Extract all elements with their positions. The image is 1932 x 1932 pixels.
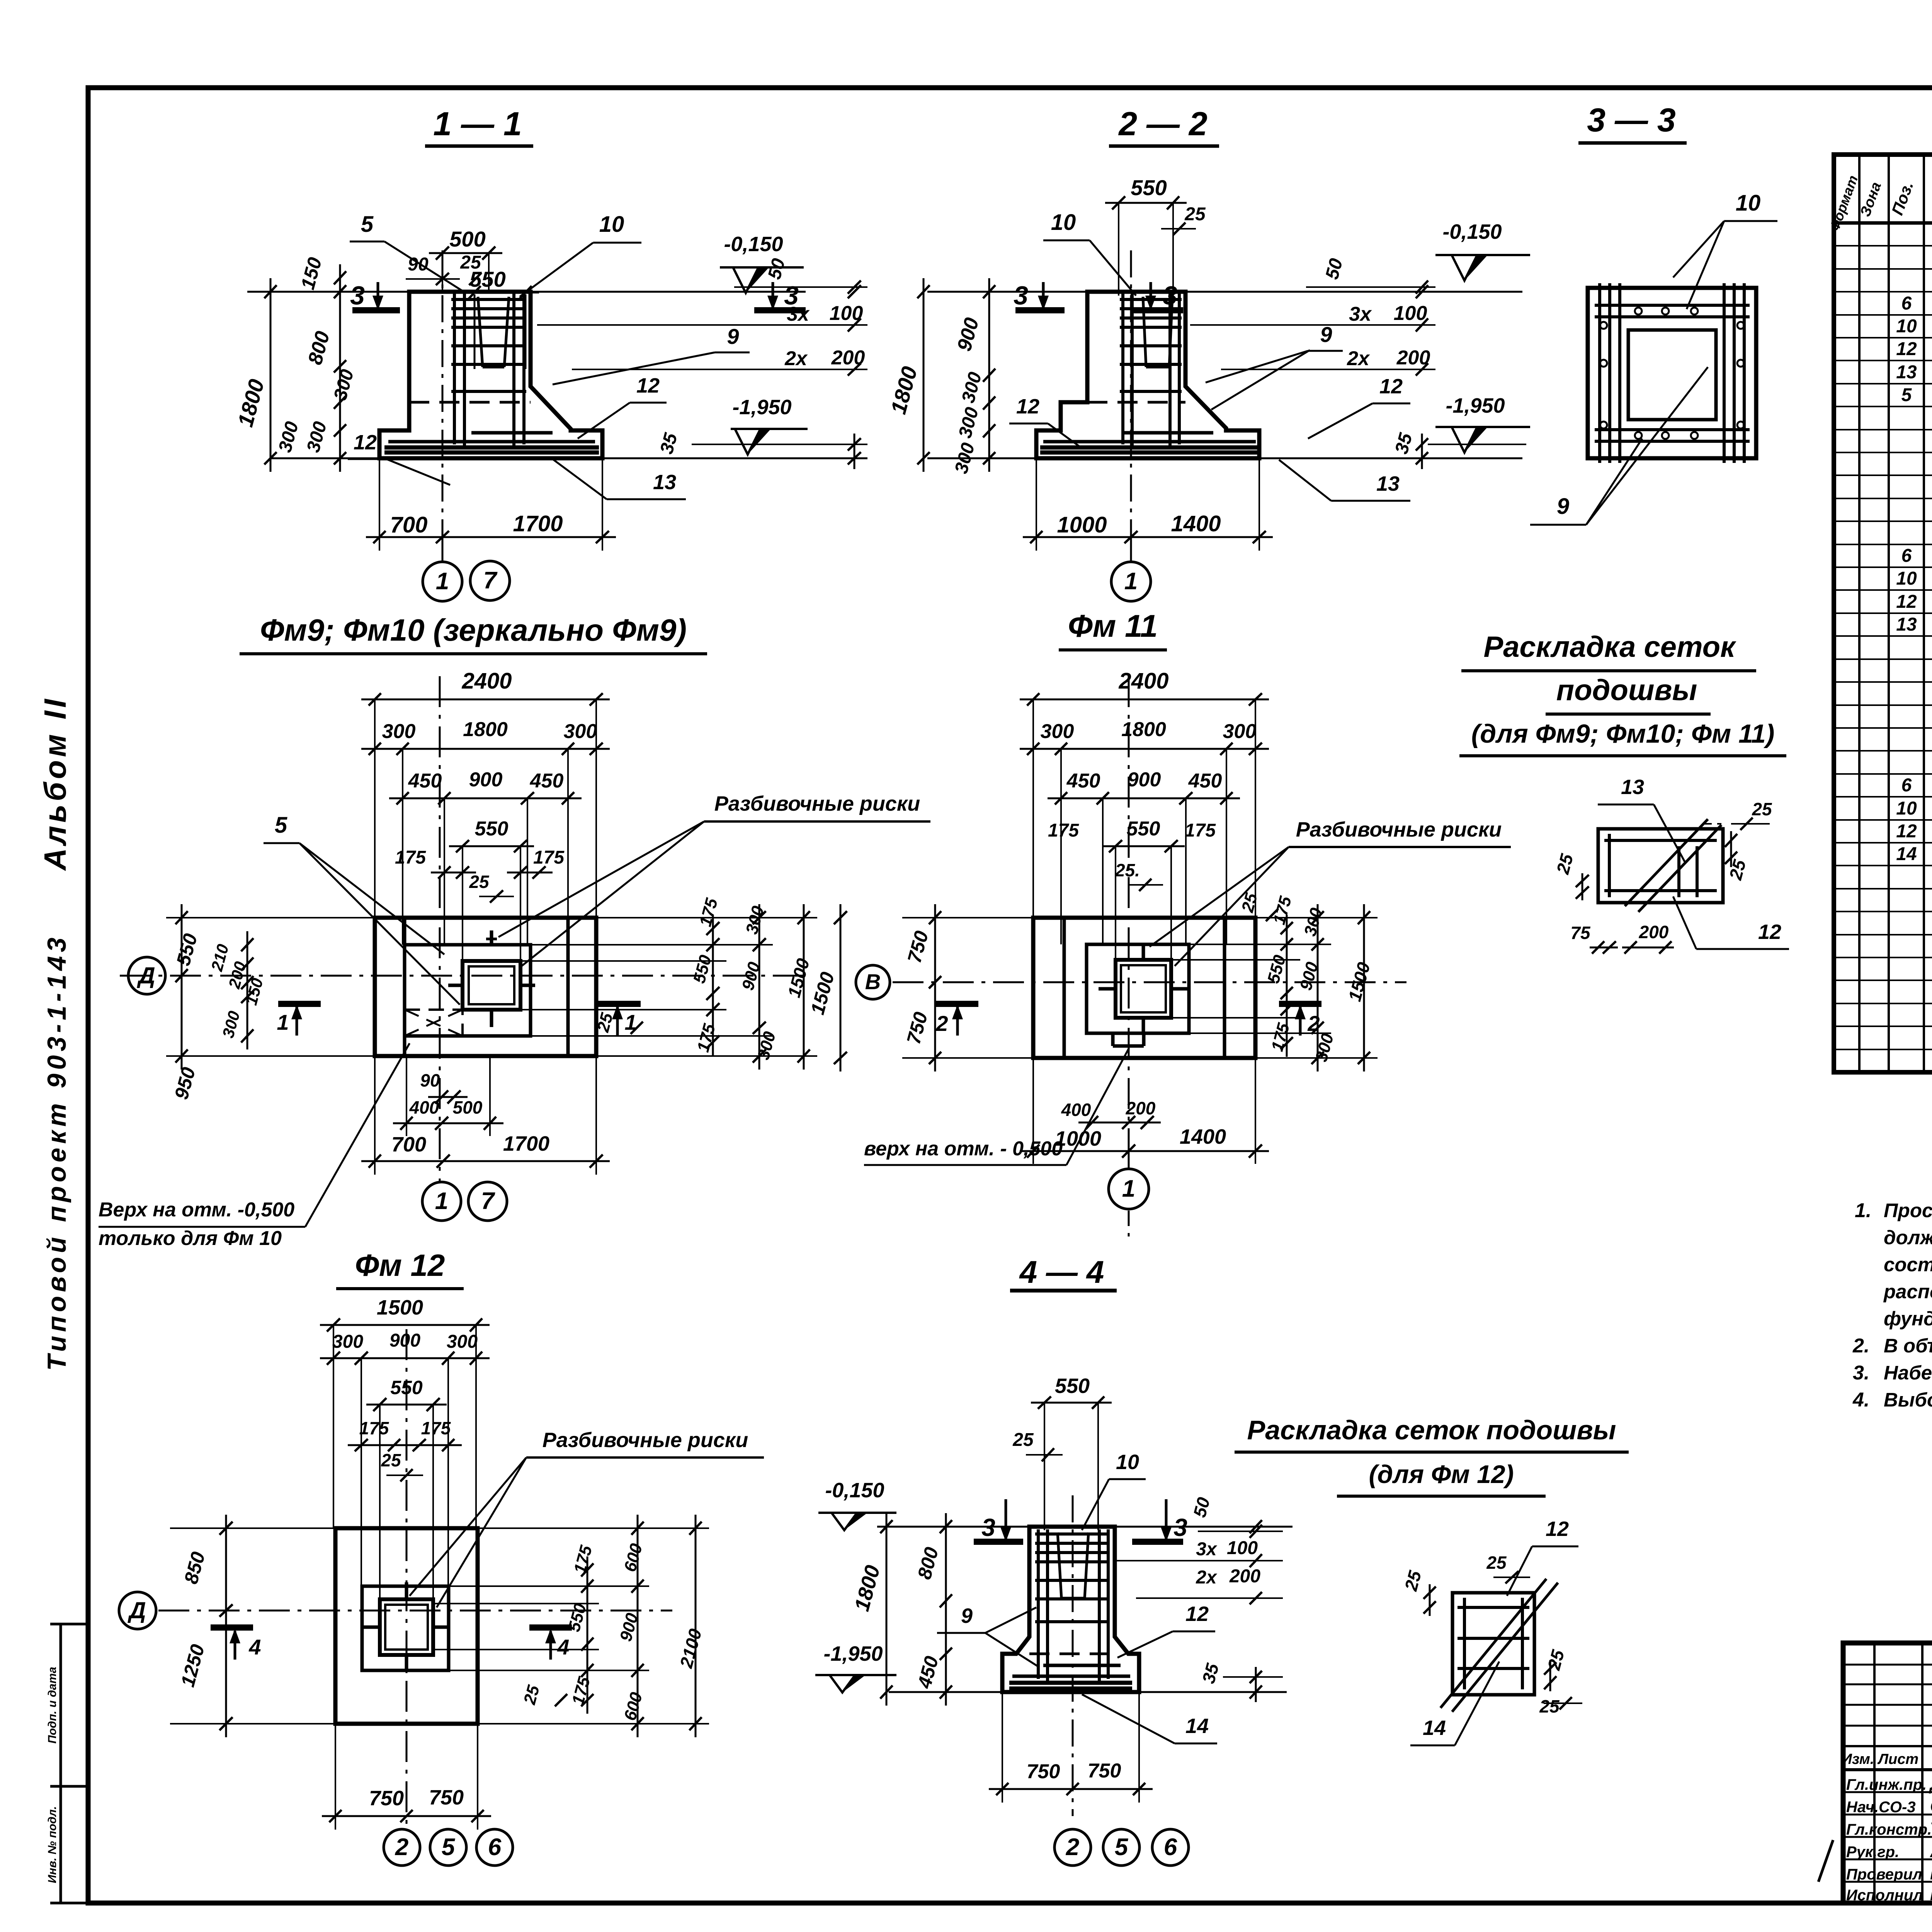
plan FM12 axis circles [384,1829,420,1866]
2-2 dim 550 [1105,202,1187,204]
svg-text:300: 300 [447,1332,478,1352]
section 2-2 centerline [1130,250,1132,537]
svg-text:4 — 4: 4 — 4 [1019,1255,1104,1290]
svg-text:12: 12 [1896,592,1917,612]
svg-text:550: 550 [1055,1374,1090,1398]
svg-text:6: 6 [1901,546,1912,566]
plan FM9 left chain small [247,931,248,1049]
section 1-1 vertical rebars [453,294,456,444]
section 1-1 bottom line ext [270,457,867,459]
plan FM11 cut mark 2 left [936,1001,978,1007]
plan FM11 bottom dim 1000-1400 [1020,1150,1269,1152]
plan FM12 axis horizontal [158,1610,672,1612]
svg-text:5: 5 [442,1834,456,1861]
svg-text:Разбивочные риски: Разбивочные риски [543,1429,748,1452]
svg-text:(для Фм9; Фм10; Фм 11): (для Фм9; Фм10; Фм 11) [1471,719,1775,748]
svg-text:175: 175 [533,847,565,868]
section 1-1 foundation outline [379,292,602,458]
svg-text:3: 3 [1173,1514,1187,1541]
plan FM11 left dim 1500 [840,904,842,1071]
svg-text:5: 5 [1901,385,1912,405]
svg-text:4: 4 [248,1635,261,1659]
svg-text:900: 900 [1128,769,1161,791]
svg-text:Верх на отм. -0,500: Верх на отм. -0,500 [99,1199,294,1221]
plan FM12 risk ticks [405,1582,408,1599]
4-4 axis circles [1054,1829,1091,1866]
svg-text:2.: 2. [1852,1335,1869,1357]
svg-text:2400: 2400 [1118,668,1168,694]
svg-text:13: 13 [653,471,676,494]
3-3 outer square [1588,288,1756,458]
4-4 footing mesh bars [1012,1675,1130,1678]
svg-text:только для Фм 10: только для Фм 10 [99,1227,282,1250]
plan FM9 risk tick top [490,930,493,945]
4-4 centerline [1072,1495,1074,1816]
cut mark 3 right [754,307,806,313]
section 2-2 foundation outline [1036,292,1259,458]
svg-text:450: 450 [1188,770,1222,792]
svg-text:9: 9 [727,324,739,349]
svg-text:Альбом II: Альбом II [38,696,72,871]
plan FM9 risk tick bottom [490,1010,493,1027]
plan FM11 band lines [1063,918,1066,1058]
svg-text:750: 750 [429,1786,464,1809]
plan FM12 glass outer [380,1599,433,1655]
section 2-2 vertical rebars [1121,294,1124,444]
dim 700-1700 line [366,536,616,538]
section 2-2 stirrup bars [1120,298,1182,301]
plan FM9 pedestal rect [405,945,531,1036]
svg-text:Трейс: Трейс [1930,1818,1932,1838]
svg-text:-1,950: -1,950 [1446,394,1505,417]
3-3 bottom band [1595,428,1750,431]
mesh1 left bar [1608,834,1611,897]
svg-text:10: 10 [1896,798,1917,819]
parts table grid [1834,155,1932,1072]
plan FM9 dim 2400 [361,699,610,701]
svg-text:750: 750 [1088,1760,1121,1782]
section 4-4 outline [1002,1527,1139,1692]
svg-text:располагались в плоскостях пар: располагались в плоскостях параллельных … [1883,1281,1932,1303]
svg-text:100: 100 [1394,302,1427,325]
svg-text:7: 7 [483,567,498,594]
plan FM9 outer rect [375,918,596,1056]
plan FM11 cut mark 2 right [1279,1001,1321,1007]
svg-text:1 — 1: 1 — 1 [433,105,522,143]
svg-text:Исполнил: Исполнил [1846,1887,1923,1904]
plan FM11 outer rect [1033,918,1255,1058]
2-2 chain inner [988,278,990,472]
svg-text:300: 300 [1041,720,1074,743]
svg-text:3: 3 [1163,281,1177,310]
svg-text:10: 10 [1896,568,1917,589]
plan FM9 bottom dim 90 [428,1096,468,1098]
svg-text:25: 25 [1486,1553,1507,1573]
4-4 ground line right [1115,1526,1293,1528]
svg-text:Раве: Раве [1930,1884,1932,1904]
plan FM12 right chain 2100 [695,1515,697,1737]
svg-text:должны быть ориентированы таки: должны быть ориентированы таким образом,… [1884,1226,1932,1248]
svg-text:Раскладка сеток: Раскладка сеток [1483,631,1736,663]
svg-text:Фм9; Фм10 (зеркально Фм9): Фм9; Фм10 (зеркально Фм9) [260,613,687,647]
svg-text:14: 14 [1423,1716,1446,1740]
svg-text:Фм 11: Фм 11 [1068,609,1158,644]
svg-text:2: 2 [395,1834,408,1861]
dim chain left inner [339,264,341,472]
plan FM9 bottom dim 700-1700 [361,1160,610,1162]
plan FM9 bottom dim 400-500 [393,1122,503,1124]
plan FM9 right chain mid [759,904,760,1070]
plan FM9 left dim 550 [181,904,183,989]
svg-text:2х: 2х [1196,1567,1218,1588]
stirrup zone line b [572,369,867,370]
svg-text:1500: 1500 [377,1296,423,1319]
plan FM9 band lines [403,918,406,1056]
svg-text:750: 750 [369,1787,404,1810]
svg-text:2400: 2400 [461,668,512,694]
svg-text:2: 2 [935,1011,948,1036]
section 1-1 ground line right [531,291,806,293]
svg-text:175: 175 [421,1418,451,1438]
section 2-2 ground line left [927,291,1087,293]
svg-text:13: 13 [1376,472,1400,495]
svg-text:6: 6 [1164,1834,1177,1861]
4-4 socket cup [1058,1532,1061,1598]
plan FM9 dim 550-175 [449,845,534,847]
svg-text:10: 10 [1736,190,1761,216]
svg-text:подошвы: подошвы [1556,674,1697,707]
svg-text:-0,150: -0,150 [724,233,783,256]
svg-text:В объём фундаментов включён об: В объём фундаментов включён объём набето… [1884,1335,1932,1357]
section 2-2 socket cup [1143,297,1146,367]
svg-text:500: 500 [453,1097,483,1117]
svg-text:450: 450 [1066,770,1100,792]
4-4 bottom ext line [889,1691,1287,1693]
svg-text:175: 175 [359,1418,389,1438]
svg-text:-0,150: -0,150 [825,1479,884,1502]
plan FM9 cut mark 1 left [278,1001,321,1007]
svg-text:3: 3 [1014,281,1028,310]
svg-text:Разбивочные риски: Разбивочные риски [1296,818,1502,841]
svg-text:Выборку стали на один элемент: Выборку стали на один элемент см. на лис… [1884,1389,1932,1411]
svg-text:Инв. № подл.: Инв. № подл. [46,1806,59,1883]
4-4 vertical rebars [1037,1529,1040,1679]
svg-text:10: 10 [599,212,624,237]
svg-text:1: 1 [435,1188,448,1214]
svg-text:Фм 12: Фм 12 [355,1248,445,1282]
plan FM9 glass inner [469,966,514,1004]
mesh2 right bar [1521,1598,1524,1689]
4-4 stirrup bars [1035,1532,1110,1536]
plan FM11 right chain 1500 [1363,904,1365,1071]
section 1-1 centerline [442,250,444,537]
plan FM12 bottom dim 750-750 [322,1815,491,1817]
3-3 vertical bars [1598,283,1601,463]
svg-text:25.: 25. [1115,860,1140,880]
svg-text:6: 6 [1901,293,1912,314]
svg-text:175: 175 [1185,820,1216,841]
4-4 cut mark 3 left [974,1539,1023,1545]
plan FM12 ext lines right [478,1527,709,1529]
4-4 dim 550 [1031,1402,1112,1404]
section 1-1 ground line left [247,291,409,293]
plan FM9 dim 300-1800-300 [361,748,610,750]
svg-text:25: 25 [1539,1696,1560,1716]
svg-text:200: 200 [1126,1098,1156,1118]
svg-text:(для Фм 12): (для Фм 12) [1369,1460,1514,1488]
plan FM11 axis circle 1 [1128,1151,1130,1169]
4-4 stirrup zone b [1136,1597,1283,1599]
mesh1 top bar [1604,839,1717,842]
plan FM11 dim 450-900-450 [1048,798,1240,799]
svg-text:90: 90 [420,1070,440,1090]
2-2 stirrup zone b [1221,369,1435,370]
4-4 ground line left [877,1526,1029,1528]
svg-text:Подп. и дата: Подп. и дата [46,1667,59,1744]
svg-text:12: 12 [1758,920,1781,944]
2-2 bottom dims [1023,536,1273,538]
svg-text:Проверил: Проверил [1846,1866,1922,1883]
plan FM12 pedestal rect [362,1586,449,1670]
cut mark 3 left [352,307,400,313]
svg-text:4: 4 [557,1635,569,1659]
svg-text:2 — 2: 2 — 2 [1118,105,1207,143]
svg-text:2х: 2х [784,347,808,370]
svg-text:900: 900 [469,769,503,791]
svg-text:9: 9 [1557,494,1569,519]
svg-text:750: 750 [1027,1760,1060,1783]
dim 500 line [429,252,502,254]
section 2-2 ground line right [1185,291,1522,293]
plan FM11 left dim 750a [934,904,936,996]
svg-text:200: 200 [831,347,865,369]
svg-text:25: 25 [381,1450,401,1470]
4-4 mesh bar short [1043,1664,1121,1667]
2-2 cut mark 3 right [1131,307,1183,313]
plan FM12 axis circle D [119,1592,156,1629]
svg-text:фундаментов Фм 11, Фм 9 - перп: фундаментов Фм 11, Фм 9 - перпендикулярн… [1884,1308,1932,1330]
svg-text:-0,150: -0,150 [1442,220,1502,243]
plan FM9 right chain inner [712,915,714,1056]
mesh2 diagonal break [1440,1579,1546,1708]
svg-text:2х: 2х [1347,347,1370,370]
svg-text:1400: 1400 [1180,1125,1226,1148]
plan FM11 dim 2400 [1020,699,1269,701]
svg-text:Гл.констр.: Гл.констр. [1846,1821,1932,1838]
svg-text:900: 900 [389,1330,420,1351]
svg-text:550: 550 [1131,175,1167,200]
2-2 axis circle [1130,537,1132,561]
svg-text:25: 25 [1012,1430,1034,1450]
svg-text:200: 200 [1639,922,1669,942]
svg-text:12: 12 [636,374,660,397]
svg-text:Раскладка сеток подошвы: Раскладка сеток подошвы [1247,1415,1616,1445]
svg-text:175: 175 [1048,820,1079,841]
mesh2 left bar [1463,1598,1466,1689]
svg-text:25: 25 [1752,799,1772,819]
section 1-1 step dashed line [409,401,531,404]
svg-text:1: 1 [1122,1175,1135,1202]
svg-text:1: 1 [1124,568,1138,595]
svg-text:25: 25 [1184,204,1206,224]
svg-text:Д: Д [127,1597,146,1623]
plan FM12 dim 550 [366,1404,447,1406]
mesh2 h bars [1458,1606,1529,1609]
svg-text:9: 9 [961,1604,973,1628]
plan FM12 dim 175-175 [348,1444,462,1446]
svg-text:500: 500 [449,227,485,251]
plan FM12 right chain inner [587,1556,588,1714]
plan FM11 right chain mid [1317,904,1319,1071]
plan FM11 risk ticks [1142,943,1145,960]
plan FM12 ext lines left [170,1527,335,1529]
svg-text:200: 200 [1229,1566,1260,1587]
svg-text:5: 5 [361,212,374,237]
plan FM9 nabetonka dashed [405,1010,463,1036]
section 2-2 step dashed [1087,401,1185,404]
svg-text:6: 6 [488,1834,502,1861]
dim chain 1800 outer [270,278,272,472]
section 1-1 footing mesh bars [388,440,595,444]
svg-text:-1,950: -1,950 [732,396,791,419]
svg-text:Набетонки выполнить одновремен: Набетонки выполнить одновременно с бетон… [1884,1362,1932,1384]
svg-text:175: 175 [395,847,426,868]
svg-text:12: 12 [1185,1602,1209,1626]
svg-text:Пространственные каркасы при у: Пространственные каркасы при установке и… [1884,1199,1932,1221]
svg-text:2: 2 [1066,1834,1079,1861]
plan FM9 risk tick left [448,984,463,987]
svg-text:1: 1 [436,568,449,595]
section 1-1 socket cup [478,297,483,367]
svg-text:14: 14 [1896,844,1917,864]
svg-text:1700: 1700 [513,511,563,536]
plan FM11 ext lines [1255,917,1378,918]
svg-text:Типовой проект 903-1-143: Типовой проект 903-1-143 [42,934,71,1371]
stirrup zone line a [537,324,867,326]
svg-text:200: 200 [1396,347,1430,369]
title block outer [1843,1643,1932,1903]
svg-text:13: 13 [1896,362,1917,383]
plan FM9 axis circles [422,1182,461,1221]
svg-text:1.: 1. [1855,1199,1871,1222]
svg-text:10: 10 [1051,210,1076,235]
plan FM11 dim 300-1800-300 [1020,748,1269,750]
svg-text:450: 450 [408,770,442,792]
svg-text:В: В [865,969,881,994]
mesh1 diagonal [1625,819,1708,906]
plan FM9 glass outer [463,961,520,1010]
svg-text:состав каркасы, с большим коли: состав каркасы, с большим количеством ве… [1884,1253,1932,1276]
svg-text:100: 100 [1227,1538,1258,1558]
svg-text:Разбивочные риски: Разбивочные риски [714,792,920,815]
svg-text:400: 400 [409,1097,439,1117]
plan FM9 axis horizontal [120,975,806,977]
svg-text:1800: 1800 [1121,718,1166,741]
left margin stamp boxes [61,1624,88,1903]
svg-text:3х: 3х [1349,303,1372,325]
plan FM11 pedestal tab [1111,1033,1115,1046]
plan FM12 cut mark 4 right [529,1624,572,1631]
svg-text:12: 12 [1016,395,1039,418]
mesh1 mid bars [1677,846,1680,897]
svg-text:1000: 1000 [1057,512,1107,537]
axis circles 1-1 [442,537,444,561]
svg-text:10: 10 [1116,1451,1139,1474]
plan FM11 axis circle B [856,965,890,999]
svg-text:12: 12 [1379,375,1403,398]
plan FM11 glass inner [1121,965,1166,1012]
svg-text:Апсе: Апсе [1930,1841,1932,1861]
svg-text:7: 7 [481,1188,495,1214]
plan FM12 cut mark 4 left [211,1624,253,1631]
svg-text:300: 300 [564,720,597,743]
svg-text:Второв: Второв [1930,1863,1932,1883]
svg-text:Изм.: Изм. [1842,1751,1874,1767]
4-4 step dashed [1029,1653,1115,1655]
svg-text:300: 300 [382,720,416,743]
svg-text:9: 9 [1320,322,1332,347]
plan FM12 dim 1500 [320,1324,490,1326]
svg-text:3х: 3х [1196,1539,1218,1560]
svg-text:550: 550 [1127,818,1160,840]
plan FM12 glass inner [385,1605,428,1650]
svg-text:550: 550 [390,1377,423,1398]
svg-text:300: 300 [1223,720,1257,743]
title block left grid [1873,1643,1876,1903]
plan FM9 dim 450-900-450 [389,798,582,799]
title block slash mark [1818,1840,1833,1882]
plan FM12 left dim 1250 [225,1597,227,1737]
svg-text:400: 400 [1061,1100,1091,1120]
plan FM12 axis vertical [406,1329,408,1832]
section 1-1 stirrup bars [451,298,526,301]
4-4 chain 1800 [886,1513,888,1706]
svg-text:Гл.инж.пр.: Гл.инж.пр. [1846,1776,1927,1793]
plan FM9 risk tick right [520,984,535,987]
svg-text:3х: 3х [787,303,810,325]
plan FM11 left dim 750b [934,969,936,1071]
dim 550 line [461,292,539,294]
plan FM9 cut mark 1 right [598,1001,641,1007]
2-2 chain 1800 [923,278,925,472]
svg-text:Олешко: Олешко [1930,1796,1932,1816]
svg-text:12: 12 [1896,821,1917,842]
svg-text:10: 10 [1896,316,1917,337]
plan FM12 outer rect [335,1528,478,1724]
plan FM11 glass outer [1116,960,1171,1018]
plan FM9 axis vertical [439,676,441,1182]
2-2 cut mark 3 left [1015,307,1065,313]
svg-text:700: 700 [391,1133,426,1156]
4-4 stirrup zone a [1117,1560,1283,1561]
svg-text:25: 25 [469,872,490,892]
svg-text:700: 700 [390,512,428,537]
svg-text:-1,950: -1,950 [823,1642,883,1665]
plan FM9 left dim 950 [181,962,183,1070]
svg-text:14: 14 [1185,1714,1209,1738]
svg-text:300: 300 [332,1332,363,1352]
svg-text:12: 12 [354,431,377,454]
plan FM12 right chain mid [637,1515,639,1737]
4-4 bottom dims [989,1788,1153,1790]
plan FM11 axis vertical [1128,676,1130,1151]
4-4 chain inner [945,1513,947,1706]
svg-text:Д: Д [136,963,155,988]
svg-text:450: 450 [530,770,564,792]
plan FM11 right chain inner [1286,915,1288,1057]
svg-text:4.: 4. [1852,1389,1869,1411]
plan FM11 bottom dim 400-200 [1078,1122,1161,1124]
